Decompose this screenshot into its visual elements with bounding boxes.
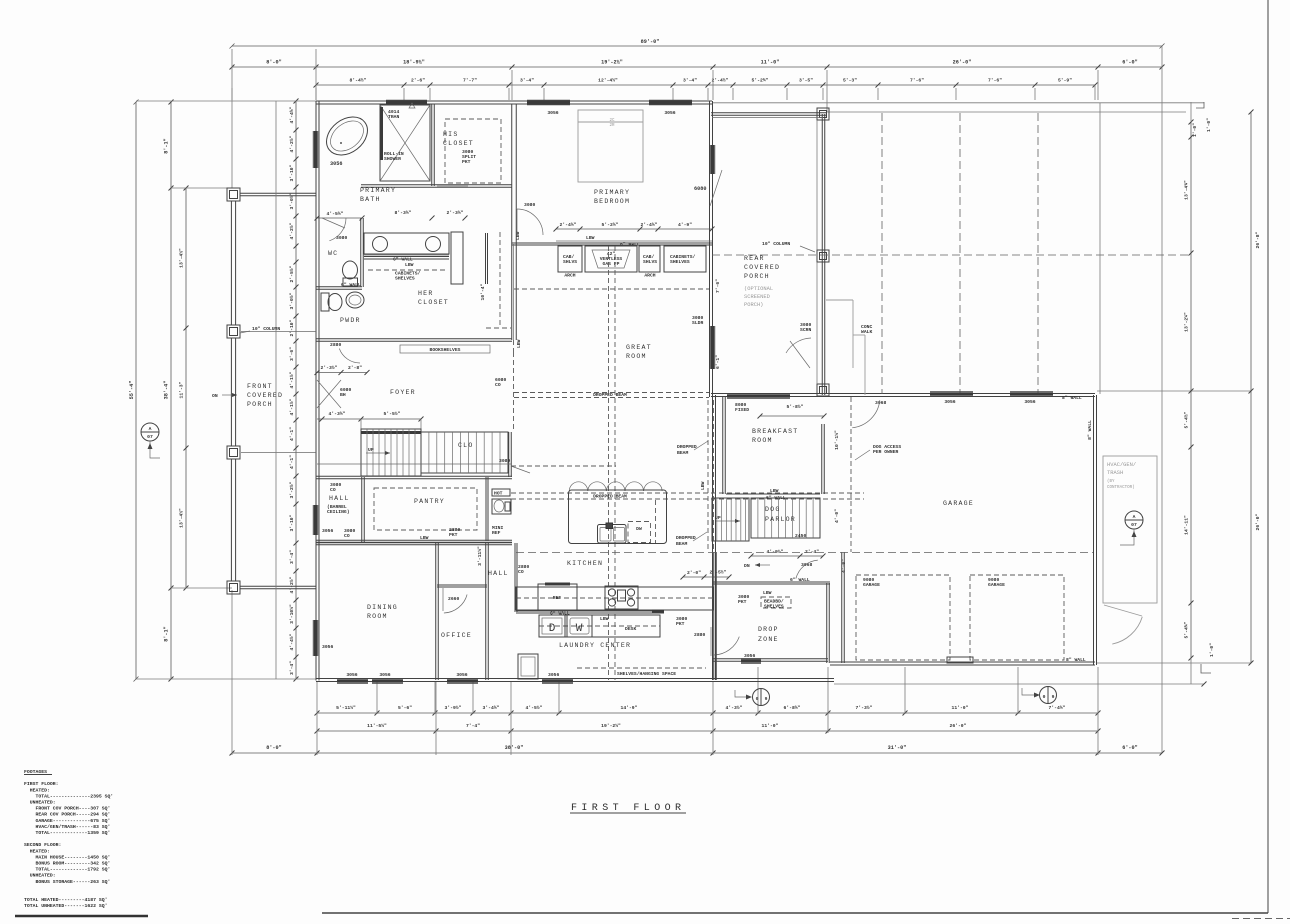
svg-text:SHELVES/HANGING SPACE: SHELVES/HANGING SPACE xyxy=(617,671,676,677)
svg-text:19'-2½": 19'-2½" xyxy=(601,60,623,66)
sheet border bottom line xyxy=(322,912,1268,914)
svg-text:SHLVS: SHLVS xyxy=(563,259,577,265)
svg-text:3'-11½": 3'-11½" xyxy=(477,546,483,566)
svg-text:CLOSET: CLOSET xyxy=(443,140,474,147)
svg-text:PKT: PKT xyxy=(676,621,685,627)
svg-text:REF: REF xyxy=(553,595,562,601)
wall great room left low wall xyxy=(513,244,515,340)
svg-text:SECOND FLOOR:: SECOND FLOOR: xyxy=(24,842,61,848)
kitchen island stool arcs xyxy=(569,482,587,491)
svg-text:HVAC/GEN/TRASH------83 SQ': HVAC/GEN/TRASH------83 SQ' xyxy=(24,824,110,830)
svg-text:DROP: DROP xyxy=(758,626,779,633)
svg-text:5'-4¾": 5'-4¾" xyxy=(1184,621,1190,638)
kitchen counter band xyxy=(516,587,713,610)
svg-text:5'-4½": 5'-4½" xyxy=(1184,411,1190,428)
his closet dashed shelving xyxy=(445,119,501,183)
bottom extension lines xyxy=(376,682,378,714)
svg-text:7'-3½": 7'-3½" xyxy=(856,705,873,711)
svg-text:FRONT COV PORCH----307 SQ': FRONT COV PORCH----307 SQ' xyxy=(24,806,110,812)
svg-text:LAUNDRY CENTER: LAUNDRY CENTER xyxy=(559,642,631,649)
svg-text:6" WALL: 6" WALL xyxy=(341,282,361,288)
front porch rails xyxy=(230,201,232,325)
svg-text:5'-5½": 5'-5½" xyxy=(384,411,401,417)
svg-text:DINING: DINING xyxy=(367,604,398,611)
svg-text:8'-3¾": 8'-3¾" xyxy=(395,210,412,216)
laundry tall cabinet xyxy=(518,654,538,679)
right dimension col inner xyxy=(1190,122,1192,658)
svg-text:BEDROOM: BEDROOM xyxy=(594,198,630,205)
svg-text:2'-3¾": 2'-3¾" xyxy=(447,210,464,216)
door arc bath to wc area xyxy=(329,218,346,241)
wall breakfast right xyxy=(821,424,823,494)
cabinets shelves right of fireplace xyxy=(664,246,706,272)
svg-text:2880: 2880 xyxy=(694,632,705,638)
island sink xyxy=(598,525,627,544)
island dishwasher dashed xyxy=(628,522,651,543)
svg-text:OFFICE: OFFICE xyxy=(441,632,472,639)
porch column middle right xyxy=(817,250,829,262)
svg-text:2'-4": 2'-4" xyxy=(805,549,819,555)
svg-text:26'-0": 26'-0" xyxy=(953,60,972,66)
svg-text:FOYER: FOYER xyxy=(390,389,416,396)
svg-text:4'-3½": 4'-3½" xyxy=(726,705,743,711)
svg-text:3056: 3056 xyxy=(944,399,955,405)
svg-text:3056: 3056 xyxy=(1024,399,1035,405)
garage door 1 dashed xyxy=(856,575,950,660)
svg-text:3068: 3068 xyxy=(875,400,886,406)
dropped beam dashed upper xyxy=(514,392,709,394)
svg-text:4'-5½": 4'-5½" xyxy=(526,705,543,711)
svg-text:3080: 3080 xyxy=(524,202,535,208)
svg-text:CO: CO xyxy=(518,569,524,575)
svg-text:COVERED: COVERED xyxy=(247,392,283,399)
dog access dashed xyxy=(850,397,852,552)
svg-text:LBW: LBW xyxy=(600,616,609,622)
svg-text:CLO: CLO xyxy=(458,442,473,449)
svg-text:SHLVS: SHLVS xyxy=(643,259,657,265)
door laundry to mud hall xyxy=(710,627,712,656)
svg-text:8'-1": 8'-1" xyxy=(164,626,170,642)
svg-text:4'-9": 4'-9" xyxy=(678,222,692,228)
svg-text:CONTRACTOR): CONTRACTOR) xyxy=(1107,485,1135,490)
svg-text:ROOM: ROOM xyxy=(626,353,647,360)
svg-text:3056: 3056 xyxy=(664,110,675,116)
svg-text:FRONT: FRONT xyxy=(247,383,273,390)
wall breakfast bottom lbw xyxy=(726,493,820,495)
wall her closet right corridor xyxy=(511,104,513,340)
svg-text:D: D xyxy=(549,623,556,635)
wall suite bottom xyxy=(316,338,512,340)
svg-text:3056: 3056 xyxy=(322,528,333,534)
svg-text:W: W xyxy=(576,623,583,635)
window 3056 left wall hall xyxy=(314,505,317,535)
svg-text:5'-6": 5'-6" xyxy=(398,705,412,711)
top extension lines xyxy=(231,88,233,100)
center dashed beam vertical pair xyxy=(608,246,610,680)
pantry dashed shelves xyxy=(374,488,477,530)
stair up arrow xyxy=(366,452,390,454)
wall exterior right of great room xyxy=(709,101,711,397)
svg-text:5'-9": 5'-9" xyxy=(1058,78,1072,84)
svg-text:HALL: HALL xyxy=(329,495,350,502)
svg-text:3'-4": 3'-4" xyxy=(289,661,295,675)
svg-text:TRAN: TRAN xyxy=(388,114,399,120)
door bedroom to porch xyxy=(710,170,722,206)
svg-text:UNHEATED:: UNHEATED: xyxy=(24,800,56,806)
svg-text:ZONE: ZONE xyxy=(758,636,779,643)
svg-text:BONUS STORAGE------263 SQ': BONUS STORAGE------263 SQ' xyxy=(24,879,110,885)
dryer xyxy=(539,615,565,637)
svg-text:2'-5½": 2'-5½" xyxy=(710,570,727,576)
svg-text:DOG: DOG xyxy=(765,506,780,513)
window 3056 garage top 2 xyxy=(1010,393,1053,396)
svg-text:BEAM: BEAM xyxy=(677,450,688,456)
wall bedroom south xyxy=(512,242,712,244)
svg-text:4'-4¾": 4'-4¾" xyxy=(289,106,295,123)
washer xyxy=(567,615,592,637)
window 3056 drop zone xyxy=(741,660,761,663)
foyer entry dims xyxy=(317,372,367,374)
her closet right cabinet xyxy=(451,232,463,284)
svg-text:10'-1½": 10'-1½" xyxy=(834,430,840,450)
stair dim line xyxy=(317,418,421,420)
front entry double door X xyxy=(317,380,341,408)
svg-text:PKT: PKT xyxy=(738,599,747,605)
svg-text:2'-8": 2'-8" xyxy=(348,365,362,371)
svg-text:WC: WC xyxy=(328,250,338,257)
svg-text:10" COLUMN: 10" COLUMN xyxy=(762,241,790,247)
svg-text:38'-0": 38'-0" xyxy=(505,745,524,751)
porch screen inner lines xyxy=(816,120,818,250)
bed primary bedroom xyxy=(578,110,643,182)
svg-text:6" WALL: 6" WALL xyxy=(790,577,810,583)
svg-text:2'-4¾": 2'-4¾" xyxy=(560,222,577,228)
cabinets shelves dashed her closet xyxy=(368,269,445,271)
svg-text:PWDR: PWDR xyxy=(340,317,361,324)
svg-text:HEATED:: HEATED: xyxy=(24,848,50,854)
svg-text:HIS: HIS xyxy=(443,131,458,138)
door arc garage entry xyxy=(852,400,880,428)
dimension 55'-4" left overall xyxy=(135,102,137,679)
svg-text:FIRST FLOOR:: FIRST FLOOR: xyxy=(24,781,59,787)
wall exterior top primary suite xyxy=(316,100,712,102)
svg-text:3056: 3056 xyxy=(379,672,390,678)
svg-text:2660: 2660 xyxy=(448,596,459,602)
svg-text:(BY: (BY xyxy=(1107,479,1115,484)
svg-text:SCREENED: SCREENED xyxy=(744,294,770,300)
left dimension col 3 xyxy=(185,188,187,588)
svg-text:BREAKFAST: BREAKFAST xyxy=(752,428,798,435)
svg-text:CO: CO xyxy=(344,533,350,539)
door arc pwdr xyxy=(339,349,360,364)
roll-in shower xyxy=(380,105,430,181)
svg-text:FIRST FLOOR: FIRST FLOOR xyxy=(571,803,685,814)
bottom dimension row 3 xyxy=(232,752,1162,754)
svg-text:10'-4": 10'-4" xyxy=(480,283,486,300)
wall house right below porch xyxy=(712,395,714,680)
svg-text:TOTAL UNHEATED-------1622 SQ': TOTAL UNHEATED-------1622 SQ' xyxy=(24,903,107,909)
bottom dimension row 2 xyxy=(317,730,1098,732)
dimension 89'-0" top overall xyxy=(232,45,1162,47)
svg-text:38'-4": 38'-4" xyxy=(164,381,170,400)
svg-text:3'-2½": 3'-2½" xyxy=(289,481,295,498)
svg-text:8'-1": 8'-1" xyxy=(164,138,170,154)
svg-text:13'-4¾": 13'-4¾" xyxy=(1184,180,1190,200)
svg-text:11'-0": 11'-0" xyxy=(761,60,780,66)
left dimension col 4 fine xyxy=(295,101,297,679)
dashed roof lines above garage xyxy=(881,113,883,394)
dog parlor hatched xyxy=(751,498,820,538)
svg-text:DROPPED: DROPPED xyxy=(677,444,697,450)
svg-text:UP: UP xyxy=(368,447,374,453)
left dimension col 2 xyxy=(170,102,172,679)
svg-text:31'-0": 31'-0" xyxy=(888,745,907,751)
shelves hanging dashed xyxy=(577,667,706,669)
svg-text:4'-0": 4'-0" xyxy=(834,509,840,523)
svg-text:PRIMARY: PRIMARY xyxy=(594,189,630,196)
svg-text:2R: 2R xyxy=(609,124,615,128)
svg-text:ROOM: ROOM xyxy=(367,613,388,620)
garage dashed beam xyxy=(516,552,1093,554)
dims fireplace wall xyxy=(556,228,712,230)
landing dashed line xyxy=(317,463,511,465)
svg-text:0: 0 xyxy=(756,696,759,702)
svg-text:ROOM: ROOM xyxy=(752,437,773,444)
window 3056 left wall dining xyxy=(314,620,317,656)
dashed line kitchen top xyxy=(511,465,616,467)
kitchen island xyxy=(569,490,667,544)
svg-text:CLOSET: CLOSET xyxy=(418,299,449,306)
mud hall walls xyxy=(707,400,709,552)
svg-text:PORCH: PORCH xyxy=(247,401,273,408)
svg-text:5'-11½": 5'-11½" xyxy=(336,705,356,711)
sheet corner dashes bottom right xyxy=(1232,918,1290,920)
dims below dog parlor xyxy=(751,555,823,557)
wall breakfast left xyxy=(722,397,724,494)
svg-text:PARLOR: PARLOR xyxy=(765,516,796,523)
svg-text:TOTAL HEATED---------4187 SQ': TOTAL HEATED---------4187 SQ' xyxy=(24,897,107,903)
svg-text:7'-6": 7'-6" xyxy=(988,78,1002,84)
garage left wall xyxy=(841,552,843,663)
svg-text:LBW: LBW xyxy=(763,590,772,596)
svg-text:4'-1½": 4'-1½" xyxy=(289,398,295,415)
wall kitchen left xyxy=(514,543,516,612)
sheet border bottom left line xyxy=(15,915,148,917)
svg-text:3'-4": 3'-4" xyxy=(289,550,295,564)
svg-text:4'-1": 4'-1" xyxy=(289,427,295,441)
svg-text:6'-8¾": 6'-8¾" xyxy=(784,705,801,711)
svg-text:3'-4¾": 3'-4¾" xyxy=(483,705,500,711)
windows 3056 bottom wall dining office xyxy=(337,680,368,683)
svg-text:FIXED: FIXED xyxy=(735,407,749,413)
svg-text:2'-6": 2'-6" xyxy=(411,78,425,84)
svg-text:HVAC/GEN/: HVAC/GEN/ xyxy=(1107,462,1136,468)
bookshelves dashed xyxy=(400,345,490,353)
wall hall pantry top xyxy=(316,475,512,477)
svg-text:GARAGE-------------675 SQ': GARAGE-------------675 SQ' xyxy=(24,818,110,824)
stairs main flight xyxy=(361,429,421,476)
svg-text:4'-2½": 4'-2½" xyxy=(289,222,295,239)
porch slab edge xyxy=(275,101,277,679)
wall rear porch posts right xyxy=(821,114,823,395)
svg-text:TOTAL--------------2395 SQ': TOTAL--------------2395 SQ' xyxy=(24,793,113,799)
svg-text:07: 07 xyxy=(147,434,153,440)
fireplace cabinet right xyxy=(639,246,660,272)
svg-text:LBW: LBW xyxy=(515,231,521,240)
svg-text:5'-2¾": 5'-2¾" xyxy=(602,222,619,228)
porch mid rails xyxy=(241,331,316,333)
svg-text:2'-10": 2'-10" xyxy=(289,319,295,336)
top dimension row 2 xyxy=(232,66,1162,68)
svg-text:CO: CO xyxy=(495,382,501,388)
drop zone bottom wall xyxy=(712,658,828,660)
svg-text:6'-0": 6'-0" xyxy=(1122,745,1138,751)
svg-text:LBW: LBW xyxy=(586,235,595,241)
section marker bottom center xyxy=(735,690,748,697)
right dimension 1'-0" jog top xyxy=(1196,102,1204,108)
front porch columns xyxy=(227,188,240,201)
wall kitchen laundry divide xyxy=(516,610,664,612)
svg-text:5'-2¾": 5'-2¾" xyxy=(752,78,769,84)
garage door jamb center xyxy=(947,657,973,663)
svg-text:CEILING): CEILING) xyxy=(327,509,350,515)
svg-text:8'-4½": 8'-4½" xyxy=(350,78,367,84)
svg-text:GAS FP: GAS FP xyxy=(603,261,620,267)
svg-text:6'-1": 6'-1" xyxy=(715,355,721,369)
wall wc right xyxy=(360,218,362,287)
window 3056 left wall bath xyxy=(314,131,317,168)
laundry counter xyxy=(539,615,660,637)
wall exterior bottom main house xyxy=(316,678,834,680)
svg-text:4'-1": 4'-1" xyxy=(289,455,295,469)
stair right wall xyxy=(508,432,510,477)
svg-text:DN: DN xyxy=(744,563,750,569)
svg-text:DW: DW xyxy=(636,526,642,532)
svg-text:7'-4¾": 7'-4¾" xyxy=(1049,705,1066,711)
fireplace 42in ventless gas fp xyxy=(585,246,637,272)
svg-text:3056: 3056 xyxy=(548,672,559,678)
sink pwdr xyxy=(346,292,364,308)
svg-text:HALL: HALL xyxy=(488,570,509,577)
svg-text:HER: HER xyxy=(418,290,433,297)
svg-text:8'-0": 8'-0" xyxy=(266,60,282,66)
svg-text:TOTAL-------------1359 SQ': TOTAL-------------1359 SQ' xyxy=(24,830,110,836)
right dimension col outer totals xyxy=(1250,112,1252,663)
section marker A-07 right xyxy=(1125,511,1143,529)
svg-text:4'-2½": 4'-2½" xyxy=(289,576,295,593)
svg-text:LBW: LBW xyxy=(516,339,522,348)
svg-text:3'-10": 3'-10" xyxy=(289,164,295,181)
svg-text:4'-1½": 4'-1½" xyxy=(289,371,295,388)
svg-text:13'-4½": 13'-4½" xyxy=(179,508,185,528)
svg-text:REAR: REAR xyxy=(744,255,765,262)
svg-text:HOT: HOT xyxy=(494,491,503,497)
back stairs xyxy=(712,498,749,541)
svg-text:LBW: LBW xyxy=(770,488,779,494)
window 3056 garage top 1 xyxy=(930,393,973,396)
wall garage bottom xyxy=(830,661,1095,663)
svg-text:A: A xyxy=(149,426,152,432)
svg-text:3'-5": 3'-5" xyxy=(799,78,813,84)
svg-text:GARAGE: GARAGE xyxy=(943,500,974,507)
porch column bottom right xyxy=(817,384,829,396)
svg-text:3056: 3056 xyxy=(547,110,558,116)
svg-text:SHOWER: SHOWER xyxy=(384,156,401,162)
svg-text:SHELVES: SHELVES xyxy=(670,259,690,265)
svg-text:GARAGE: GARAGE xyxy=(988,582,1005,588)
svg-text:2'-4¾": 2'-4¾" xyxy=(641,222,658,228)
toilet pwdr xyxy=(321,293,329,311)
svg-text:12'-4½": 12'-4½" xyxy=(598,78,618,84)
svg-text:8" WALL: 8" WALL xyxy=(1087,420,1093,440)
beadboard shelves dashed xyxy=(761,597,791,608)
svg-text:ON: ON xyxy=(212,393,218,399)
door arc at stair bottom right xyxy=(511,466,530,473)
svg-text:6'-0": 6'-0" xyxy=(1122,60,1138,66)
svg-text:11'-3": 11'-3" xyxy=(179,381,185,398)
svg-text:BEAM: BEAM xyxy=(676,541,687,547)
svg-text:PKT: PKT xyxy=(449,532,458,538)
svg-text:KITCHEN: KITCHEN xyxy=(567,560,603,567)
right dimension 1'-0" jog bottom xyxy=(1201,664,1211,673)
svg-text:BATH: BATH xyxy=(360,196,381,203)
svg-text:A: A xyxy=(1133,514,1136,520)
dropped beam dashed lower xyxy=(511,492,864,494)
svg-text:14'-9": 14'-9" xyxy=(621,705,638,711)
wall office right / hall2 xyxy=(485,543,487,680)
svg-text:REAR COV PORCH-----294 SQ': REAR COV PORCH-----294 SQ' xyxy=(24,812,110,818)
svg-text:1'-0": 1'-0" xyxy=(1192,123,1198,137)
range xyxy=(605,586,638,609)
svg-text:HEATED:: HEATED: xyxy=(24,787,50,793)
svg-text:PRIMARY: PRIMARY xyxy=(360,187,396,194)
section marker bottom right xyxy=(1022,688,1035,695)
stairs upper flight and closet xyxy=(421,432,508,473)
garage door 2 dashed xyxy=(970,575,1064,660)
toilet wc xyxy=(343,261,358,279)
svg-text:3'-9½": 3'-9½" xyxy=(445,705,462,711)
svg-text:PANTRY: PANTRY xyxy=(414,498,445,505)
svg-text:MAIN HOUSE--------1450 SQ': MAIN HOUSE--------1450 SQ' xyxy=(24,854,110,860)
dim breakfast xyxy=(760,415,824,417)
svg-text:9: 9 xyxy=(1052,694,1055,700)
svg-text:3'-6": 3'-6" xyxy=(289,347,295,361)
wall dining office divide xyxy=(435,543,437,680)
svg-text:3056: 3056 xyxy=(330,161,342,167)
svg-text:26'-0": 26'-0" xyxy=(950,723,967,729)
svg-text:SLDR: SLDR xyxy=(692,320,703,326)
top dimension row 3 fine xyxy=(316,84,1095,86)
svg-text:LBW: LBW xyxy=(700,481,706,490)
svg-text:3056: 3056 xyxy=(456,672,467,678)
bottom dimension row 1 xyxy=(317,712,1098,714)
svg-text:3056: 3056 xyxy=(346,672,357,678)
svg-text:SHELVES: SHELVES xyxy=(764,604,784,610)
hvac pad outline xyxy=(1103,456,1157,603)
svg-text:11'-0": 11'-0" xyxy=(762,723,779,729)
svg-text:4'-3¾": 4'-3¾" xyxy=(329,411,346,417)
door arc mud to garage xyxy=(796,560,818,578)
svg-text:REF: REF xyxy=(492,530,501,536)
svg-text:BONUS ROOM---------342 SQ': BONUS ROOM---------342 SQ' xyxy=(24,861,110,867)
svg-text:18'-9½": 18'-9½" xyxy=(403,60,425,66)
wall porch bottom / garage top xyxy=(711,393,1095,395)
svg-text:GARAGE: GARAGE xyxy=(863,582,880,588)
svg-text:4'-2½": 4'-2½" xyxy=(289,135,295,152)
svg-text:55'-4": 55'-4" xyxy=(129,381,135,400)
window 3056 bedroom right xyxy=(649,101,692,104)
window bedroom right wall xyxy=(711,145,714,174)
